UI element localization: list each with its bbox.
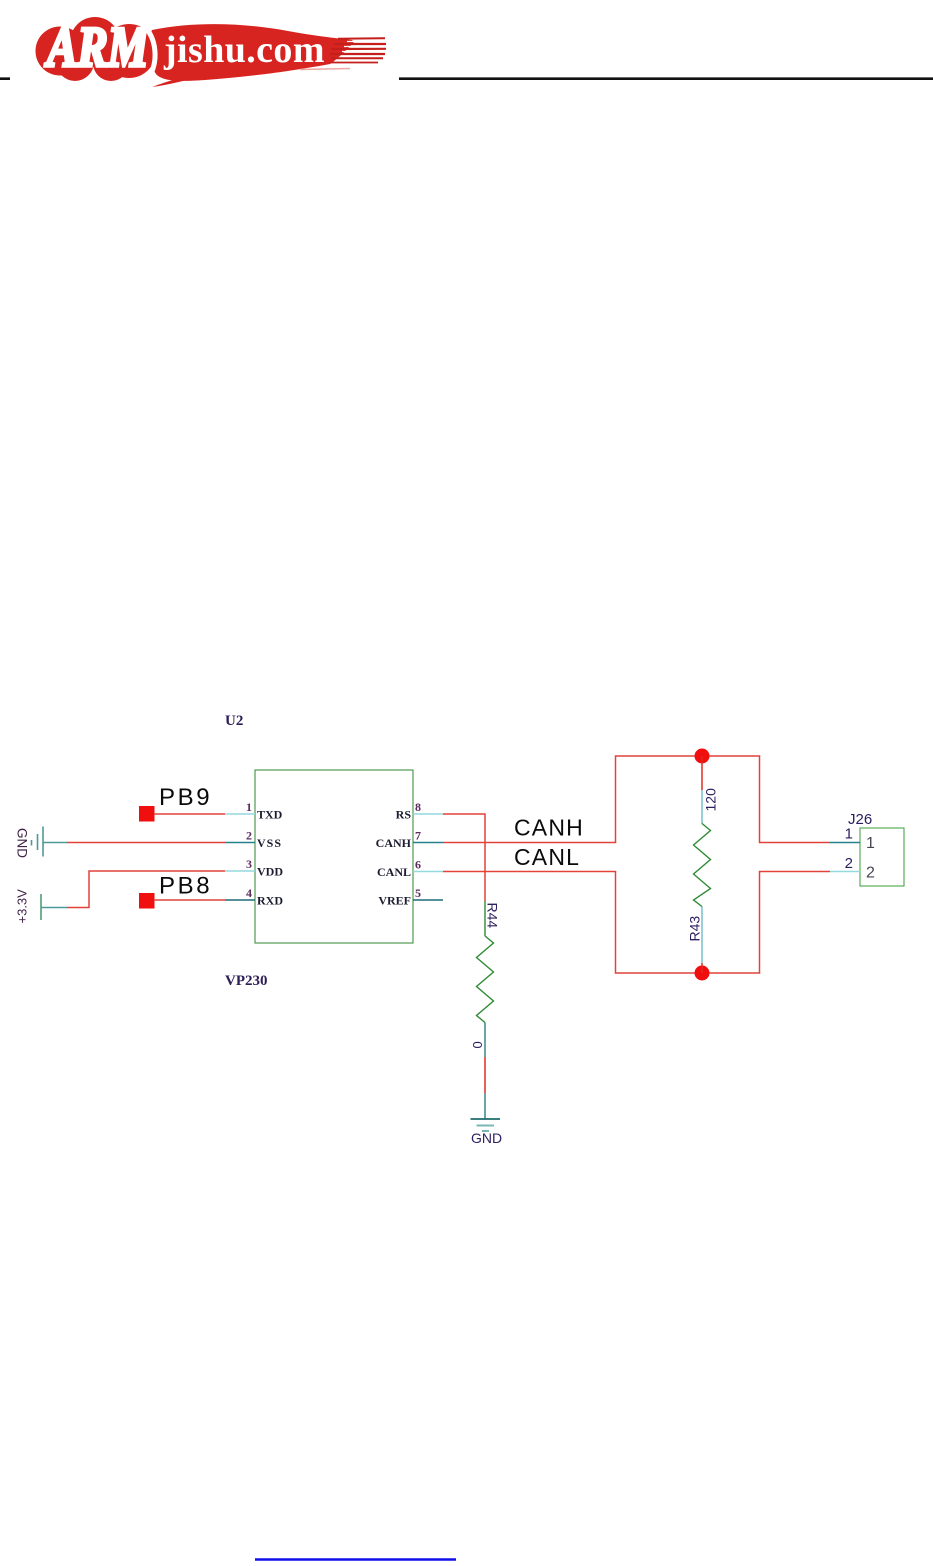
svg-text:RXD: RXD [257,894,283,908]
ground GND bottom [471,1093,503,1146]
svg-text:TXD: TXD [257,808,283,822]
svg-text:5: 5 [415,886,421,900]
pin 8 RS stub [413,813,443,815]
pin 1 TXD stub [225,813,255,815]
svg-text:+3.3V: +3.3V [15,889,30,924]
svg-text:GND: GND [15,828,30,858]
logo ARMjishu.com [36,16,387,87]
label U2 [225,713,243,729]
pin name CANH [376,836,412,850]
pin 7 CANH stub [413,842,443,844]
wire RS to R44 [443,814,485,901]
resistor R43 [694,756,711,973]
junction node top [695,749,710,764]
svg-text:7: 7 [415,829,421,843]
resistor R44 [477,901,494,1057]
pin 3 VDD stub [225,870,255,872]
svg-text:2: 2 [246,829,252,843]
pin number 7 [415,829,421,843]
svg-text:1: 1 [845,826,853,843]
svg-text:VDD: VDD [257,865,283,879]
pin 5 VREF stub [413,899,443,901]
label R43 [687,916,703,942]
label VP230 [225,973,268,989]
pin 2 VSS stub [225,842,255,844]
svg-text:2: 2 [866,865,875,882]
svg-text:VP230: VP230 [225,973,268,989]
svg-text:ARM: ARM [44,16,150,79]
ground GND left [15,827,68,859]
svg-text:R44: R44 [484,903,500,929]
pin number 2 [246,829,252,843]
pin 4 RXD stub [225,899,255,901]
svg-text:8: 8 [415,800,421,814]
wire VSS [67,842,225,844]
svg-text:4: 4 [246,886,252,900]
pin number 6 [415,858,421,872]
svg-text:RS: RS [396,808,412,822]
svg-text:U2: U2 [225,713,243,729]
link underline bottom [255,1558,456,1560]
svg-text:CANH: CANH [376,836,412,850]
svg-text:CANL: CANL [377,865,411,879]
pin name VREF [378,894,411,908]
svg-text:GND: GND [471,1130,502,1146]
svg-text:VSS: VSS [257,836,282,850]
power +3.3V [15,889,68,924]
svg-text:1: 1 [866,835,875,852]
net label CANL [514,844,580,870]
pin name VDD [257,865,283,879]
wire CANL [443,872,830,974]
pin number 3 [246,857,252,871]
wire TXD [154,813,225,815]
svg-text:6: 6 [415,858,421,872]
label 120 [703,788,719,812]
junction node bottom [695,966,710,981]
header rule [0,62,933,96]
svg-text:jishu.com: jishu.com [163,29,325,71]
pin name RXD [257,894,283,908]
pin number 5 [415,886,421,900]
pin name CANL [377,865,411,879]
wire R44 to GND [484,1057,486,1093]
svg-text:120: 120 [703,788,719,812]
svg-text:0: 0 [470,1041,485,1048]
svg-text:R43: R43 [687,916,703,942]
port PB9 [139,784,212,822]
pin name TXD [257,808,283,822]
wire RXD [154,899,225,901]
wire VDD [67,871,225,908]
label R44 [484,903,500,929]
connector J26 [830,811,904,886]
wire CANH [443,756,830,843]
pin number 1 [246,800,252,814]
svg-text:CANH: CANH [514,815,584,841]
svg-text:PB8: PB8 [159,873,212,900]
svg-text:VREF: VREF [378,894,411,908]
label 0 [470,1041,485,1048]
pin name RS [396,808,412,822]
svg-text:2: 2 [845,855,853,872]
port PB8 [139,873,212,909]
pin name VSS [257,836,282,850]
pin 6 CANL stub [413,871,443,873]
svg-text:PB9: PB9 [159,784,212,811]
svg-text:3: 3 [246,857,252,871]
pin number 8 [415,800,421,814]
pin number 4 [246,886,252,900]
IC U2 body [255,770,413,943]
svg-text:1: 1 [246,800,252,814]
net label CANH [514,815,584,841]
svg-text:CANL: CANL [514,844,580,870]
